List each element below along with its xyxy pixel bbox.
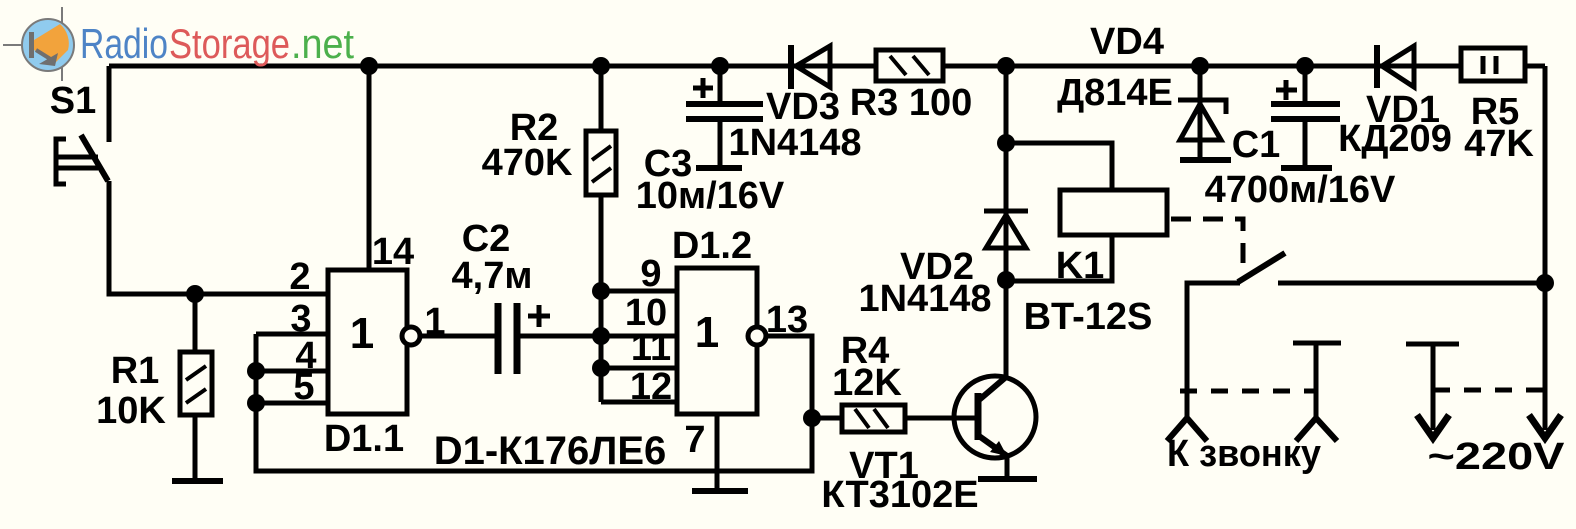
dashed link 220V contact pair — [1433, 388, 1545, 393]
svg-text:4700м/16V: 4700м/16V — [1205, 169, 1396, 211]
svg-text:K1: K1 — [1056, 245, 1105, 287]
svg-text:BT-12S: BT-12S — [1024, 296, 1153, 338]
relay coil K1 — [1060, 190, 1167, 235]
resistor R1 — [180, 352, 212, 415]
svg-text:К звонку: К звонку — [1167, 433, 1321, 475]
wire contact right side to 220V node — [1278, 281, 1545, 286]
resistor R3 — [876, 50, 943, 81]
wire C1 lower electrode — [1303, 119, 1308, 168]
arrow 220V right terminal — [1529, 415, 1561, 438]
svg-text:1: 1 — [695, 308, 719, 357]
switch S1 pusher bracket — [56, 139, 98, 184]
svg-text:3: 3 — [290, 298, 311, 340]
svg-text:7: 7 — [684, 419, 705, 461]
capacitor C1 — [1271, 80, 1340, 119]
terminal fork K zvonku right — [1296, 418, 1337, 441]
wire C2 to D1.2 pin 10 — [520, 334, 677, 339]
svg-text:R3 100: R3 100 — [850, 82, 973, 124]
svg-text:11: 11 — [631, 327, 671, 369]
svg-text:1N4148: 1N4148 — [728, 122, 861, 164]
svg-text:12K: 12K — [832, 362, 902, 404]
wire C1 branch from rail — [1303, 66, 1308, 104]
wire C3 lower electrode — [718, 119, 723, 168]
wire top supply rail — [109, 64, 1545, 69]
svg-text:9: 9 — [640, 253, 661, 295]
svg-text:1: 1 — [350, 309, 374, 358]
ground bar below VD4 — [1180, 157, 1231, 163]
svg-text:14: 14 — [372, 231, 414, 273]
wire D1.2 pin 7 to ground — [715, 414, 720, 488]
wire D1.1 pin 14 to rail — [367, 66, 372, 270]
wire R2 from rail down to pin vertical — [599, 66, 604, 291]
wire VD4 branch from rail down to bar — [1198, 66, 1203, 160]
svg-text:1: 1 — [424, 301, 445, 343]
wire D1.2 pin 9 stub — [601, 289, 677, 294]
wire K zvonku right terminal — [1314, 343, 1319, 418]
svg-text:~220V: ~220V — [1428, 436, 1566, 478]
resistor R2 — [586, 131, 616, 195]
svg-text:VD4: VD4 — [1090, 21, 1164, 63]
relay contact blade — [1238, 253, 1285, 282]
ground bar below C1 — [1281, 165, 1332, 171]
svg-text:2: 2 — [289, 256, 310, 298]
terminal fork K zvonku left — [1167, 418, 1207, 441]
wire C3 branch from rail — [718, 66, 723, 104]
logic gate D1.2 — [677, 268, 757, 414]
diode VD1 — [1377, 45, 1414, 88]
wire D1.2 input vertical pins 9-12 — [599, 291, 604, 402]
ground bar below pin 7 — [692, 488, 748, 494]
svg-text:.net: .net — [291, 20, 354, 67]
wire VD2 and relay branch from rail — [1004, 66, 1009, 280]
svg-text:5: 5 — [293, 366, 314, 408]
svg-text:13: 13 — [766, 299, 808, 341]
svg-text:C1: C1 — [1232, 124, 1281, 166]
svg-text:Storage: Storage — [169, 20, 290, 67]
svg-text:4,7м: 4,7м — [452, 255, 533, 297]
ground bar below R1 — [172, 478, 223, 484]
svg-text:Radio: Radio — [80, 20, 168, 67]
logic gate D1.1 — [328, 270, 407, 414]
node junction dots — [360, 57, 378, 75]
resistor R5 — [1461, 48, 1525, 81]
wire relay loop around K1 coil — [1006, 143, 1112, 281]
wire contact left pole — [1187, 283, 1240, 418]
resistor R4 — [842, 405, 905, 432]
wire D1.1 output pin 1 to C2 — [420, 334, 495, 339]
zener diode VD4 — [1178, 100, 1226, 140]
svg-text:47K: 47K — [1464, 123, 1534, 165]
wire 220V left terminal — [1431, 344, 1436, 430]
svg-text:D1.2: D1.2 — [672, 225, 752, 267]
svg-text:12: 12 — [630, 366, 672, 408]
switch S1 blade — [81, 135, 108, 181]
capacitor C2 — [498, 303, 550, 374]
wire D1.1 pin 3 stub — [256, 332, 328, 337]
wire VT1 collector — [1004, 280, 1009, 378]
wire D1.2 pin 12 stub — [601, 400, 677, 405]
ground bar below C3 — [696, 165, 742, 171]
svg-text:470K: 470K — [482, 142, 573, 184]
diode VD2 — [984, 211, 1028, 248]
terminal bar K zvonku right — [1293, 341, 1341, 346]
svg-text:C2: C2 — [462, 218, 511, 260]
dashed link bell contact pair — [1180, 389, 1316, 394]
terminal bar 220V left — [1406, 342, 1459, 347]
wire right vertical from R5 down to contact and 220V arrow — [1543, 66, 1548, 430]
svg-text:10м/16V: 10м/16V — [636, 175, 785, 217]
wire D1.1 pin 5 stub — [256, 401, 328, 406]
wire D1.1 pin 4 stub — [256, 369, 328, 374]
svg-text:D1-К176ЛЕ6: D1-К176ЛЕ6 — [434, 429, 667, 473]
dashed mechanical link from relay K1 to contact — [1171, 219, 1243, 268]
svg-text:R1: R1 — [111, 350, 160, 392]
wire R1 branch to ground — [193, 294, 198, 478]
wire D1.2 pin 11 stub — [601, 366, 677, 371]
svg-text:1N4148: 1N4148 — [858, 278, 991, 320]
svg-text:S1: S1 — [50, 80, 96, 122]
svg-text:КТ3102Е: КТ3102Е — [821, 474, 978, 516]
svg-text:КД209: КД209 — [1338, 118, 1452, 160]
arrow 220V left terminal — [1417, 415, 1449, 438]
wire feedback loop pins 3,4,5 to D1.2 output node — [256, 334, 812, 471]
wire R4 node to VT1 base — [812, 416, 976, 421]
transistor VT1 — [954, 376, 1037, 479]
svg-text:Д814Е: Д814Е — [1057, 72, 1173, 114]
wire S1 lower terminal to D1.1 pin 2 — [109, 181, 328, 294]
wire S1 upper terminal — [107, 66, 112, 142]
svg-text:D1.1: D1.1 — [324, 418, 404, 460]
svg-text:10K: 10K — [96, 390, 166, 432]
diode VD3 — [791, 45, 830, 89]
logo RadioStorage.net — [3, 7, 354, 81]
capacitor C3 — [686, 78, 763, 119]
